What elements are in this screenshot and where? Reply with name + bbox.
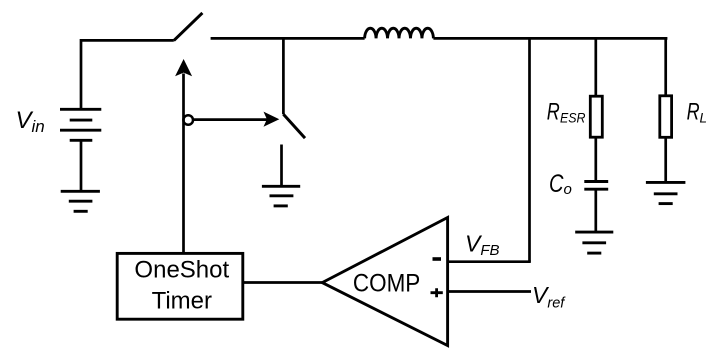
wire RL to ground (664, 137, 667, 182)
wire low-side switch to ground (280, 145, 283, 187)
wire VFB node vertical (528, 38, 531, 261)
switch S1 blade (174, 13, 203, 41)
op-amp U1 comparator COMP (322, 218, 447, 346)
label RESR (547, 99, 586, 126)
svg-text:R: R (687, 99, 700, 126)
ground (RL) (646, 182, 686, 203)
svg-text:VFB: VFB (465, 231, 500, 259)
wire node to resistor RESR (594, 38, 597, 96)
battery Vin (60, 109, 101, 140)
ground (battery) (61, 191, 100, 211)
wire control branch to switch S2 (193, 118, 267, 121)
resistor RL (660, 96, 672, 138)
wire timer output to comparator apex (243, 281, 322, 284)
label Vin (16, 107, 45, 136)
label Vref (532, 282, 566, 311)
label minus input pin (433, 257, 442, 261)
wire Vref to comparator plus input (447, 290, 532, 293)
svg-text:L: L (700, 111, 708, 126)
svg-text:OneShot: OneShot (134, 256, 229, 283)
label Co (549, 170, 572, 198)
wire timer control line vertical (182, 74, 185, 254)
ground (Co) (575, 232, 613, 253)
svg-text:Timer: Timer (152, 287, 212, 314)
label VFB (465, 231, 500, 259)
wire switch node to low-side switch S2 (282, 38, 285, 114)
resistor RESR (590, 96, 602, 137)
capacitor Co (584, 182, 608, 190)
wire RESR to capacitor Co (594, 137, 597, 181)
wire battery to ground (80, 140, 83, 191)
wire node to resistor RL (664, 38, 667, 96)
svg-text:ESR: ESR (560, 111, 586, 126)
ground (low-side switch) (262, 186, 300, 206)
wire Vin top to switch S1 (81, 40, 174, 109)
svg-text:R: R (547, 99, 560, 126)
wire VFB to comparator minus input (447, 260, 531, 263)
switch S2 blade (low-side) (283, 114, 305, 138)
wire Co to ground (594, 189, 597, 232)
arrowhead control to switch S2 (264, 112, 280, 127)
label OneShot Timer (134, 256, 229, 314)
svg-text:COMP: COMP (353, 270, 420, 298)
svg-text:C: C (549, 170, 564, 198)
svg-text:o: o (564, 181, 572, 198)
node branch circle on control line (183, 115, 193, 125)
wire switch S1 to inductor (211, 37, 365, 40)
label COMP (353, 270, 420, 298)
one-shot timer block U2 (117, 253, 243, 319)
label RL (687, 99, 707, 126)
wire inductor to RL node (433, 37, 667, 40)
arrowhead control to switch S1 (175, 59, 192, 76)
label plus input pin (431, 288, 443, 297)
svg-text:Vref: Vref (532, 282, 566, 311)
inductor L (365, 28, 434, 38)
svg-text:Vin: Vin (16, 107, 45, 136)
